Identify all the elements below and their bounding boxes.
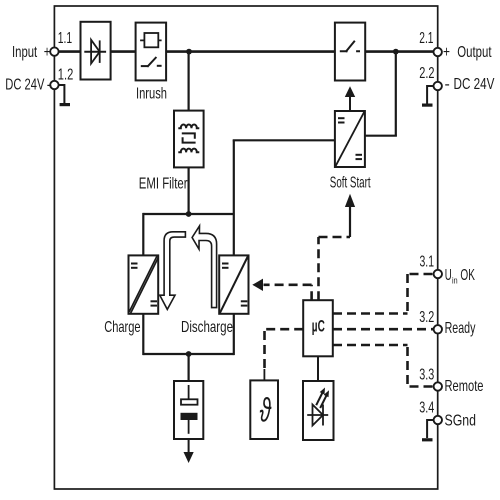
svg-text:Discharge: Discharge	[181, 319, 233, 336]
wire: discharge bottom	[233, 314, 235, 355]
terminal 3.1	[434, 270, 442, 278]
svg-text:3.2: 3.2	[419, 309, 434, 326]
svg-text:Remote: Remote	[445, 378, 484, 395]
wire: soft start corner down to Discharge top	[233, 140, 235, 255]
output switch block	[335, 23, 365, 81]
svg-text:Ready: Ready	[445, 320, 476, 337]
svg-text:U: U	[445, 267, 452, 284]
svg-text:Output: Output	[457, 44, 492, 61]
dashed: uC to 3.3 Remote	[333, 345, 433, 387]
svg-text:-: -	[47, 77, 52, 94]
arrow: capacitor discharge down	[188, 439, 190, 453]
terminal 2.2	[434, 82, 442, 90]
svg-text:3.4: 3.4	[419, 400, 434, 417]
svg-text:ϑ: ϑ	[260, 392, 272, 429]
svg-text:-: -	[445, 76, 450, 93]
wire: Inrush to output switch	[166, 50, 335, 53]
svg-text:2.2: 2.2	[419, 65, 434, 82]
wire: switch to 2.1	[365, 50, 435, 53]
wire: soft start left horizontal	[233, 139, 335, 141]
wire: into soft start right side	[365, 135, 397, 137]
svg-text:DC 24V: DC 24V	[5, 77, 44, 94]
svg-text:Charge: Charge	[104, 319, 140, 336]
terminal 3.4	[434, 416, 442, 424]
wire: theta stub	[263, 369, 265, 380]
wire: diode to Inrush	[111, 50, 136, 53]
node: junction bottom bus	[186, 351, 192, 357]
svg-text:SGnd: SGnd	[445, 413, 477, 430]
ground at 1.2	[59, 85, 65, 103]
svg-text:Inrush: Inrush	[136, 86, 167, 103]
microcontroller U4	[303, 300, 333, 356]
temperature sensor block	[250, 380, 278, 439]
wire: bottom bus	[143, 353, 234, 355]
wire: bus down to capacitor bank	[188, 354, 190, 381]
wire: charge bottom	[142, 314, 144, 355]
dashed: uC up to soft start	[319, 237, 351, 300]
terminal 2.1	[434, 48, 442, 56]
svg-text:1.1: 1.1	[58, 30, 72, 47]
wire: uC to LED	[317, 356, 319, 381]
svg-text:in: in	[452, 276, 458, 287]
wire: junction down right of soft start	[395, 52, 397, 136]
device outline border	[54, 6, 437, 489]
svg-text:EMI Filter: EMI Filter	[139, 176, 188, 193]
arrowhead into discharge	[252, 279, 263, 291]
dashed: uC to 3.1 Uin OK	[333, 274, 433, 314]
node: junction top bus	[186, 211, 192, 217]
svg-text:Soft Start: Soft Start	[330, 175, 371, 192]
svg-text:+: +	[44, 44, 51, 61]
terminal 3.2	[434, 325, 442, 333]
arrow: up into soft start	[349, 206, 351, 238]
arrow: soft start to switch	[349, 96, 351, 111]
charge converter U1	[129, 255, 159, 313]
svg-text:+: +	[443, 44, 450, 61]
soft start converter U3	[335, 111, 365, 167]
wire: EMI filter down to bus	[188, 167, 190, 214]
svg-text:3.1: 3.1	[420, 254, 435, 271]
svg-text:OK: OK	[460, 267, 475, 284]
dashed: uC to temperature sensor	[265, 329, 304, 369]
terminal 1.1	[50, 47, 58, 55]
svg-text:1.2: 1.2	[58, 66, 74, 83]
ground at 2.2	[427, 86, 433, 104]
discharge converter U2	[219, 255, 248, 313]
dashed: uC to 3.2 Ready	[333, 328, 433, 331]
ground at 3.4	[427, 420, 434, 438]
circulation arrow down (charge direction)	[160, 232, 186, 310]
dashed: uC to discharge arrow	[264, 285, 312, 300]
node: junction input/EMI	[186, 49, 192, 55]
terminal 1.2	[50, 81, 58, 89]
diode D1	[81, 22, 111, 80]
wire: top bus	[143, 213, 234, 215]
svg-text:2.1: 2.1	[419, 30, 433, 47]
svg-text:µC: µC	[312, 318, 325, 336]
svg-text:3.3: 3.3	[419, 366, 434, 383]
wire: bus to Charge top	[142, 213, 144, 256]
terminal 3.3	[434, 382, 442, 390]
wire: input main (1.1 to diode)	[57, 50, 81, 53]
wire: junction down to EMI filter	[188, 52, 190, 111]
svg-text:Input: Input	[12, 44, 38, 61]
circulation arrow left (discharge direction)	[192, 226, 217, 308]
capacitor bank C1	[174, 381, 203, 439]
svg-text:DC 24V: DC 24V	[454, 76, 495, 93]
inrush limiter block	[136, 23, 167, 81]
LED indicator block	[303, 381, 334, 440]
EMI filter block	[174, 111, 204, 168]
node: junction output/soft-start	[393, 49, 399, 55]
